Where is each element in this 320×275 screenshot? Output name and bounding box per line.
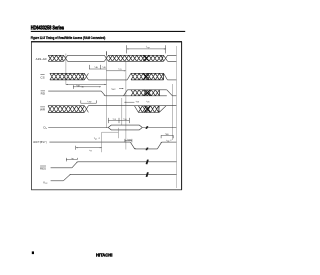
bold break X in RD hatch	[144, 90, 150, 96]
bold break X in CS hatch	[143, 73, 149, 80]
node V5 end-of-cycle reference line	[175, 46, 177, 188]
page number block	[32, 251, 34, 254]
RD falling edge	[101, 91, 105, 96]
WR band bottom	[138, 111, 159, 113]
svg-text:RC: RC	[72, 158, 74, 160]
svg-text:DH: DH	[124, 119, 126, 121]
WAIT rising edge	[157, 142, 161, 149]
svg-text:CS: CS	[40, 75, 44, 79]
dimension tRES	[65, 158, 67, 162]
svg-text:WS: WS	[128, 140, 131, 142]
RD close transition	[167, 90, 173, 96]
RD hatch	[131, 90, 159, 96]
diagram frame	[32, 42, 182, 190]
break mark	[146, 172, 148, 177]
Vcc rising ramp	[63, 174, 70, 181]
svg-text:RES: RES	[40, 166, 46, 170]
RD valid band	[124, 90, 167, 96]
dimension tWW	[80, 100, 82, 103]
dimension tWH bracket	[160, 135, 162, 138]
CS hatch 1	[50, 73, 85, 80]
RD low segment	[105, 95, 123, 97]
WR hatch 1	[48, 106, 84, 113]
WR hatch 2	[138, 106, 159, 113]
bold break X in WR hatch	[144, 106, 150, 113]
dimension tAD	[66, 83, 106, 85]
node V2 reference line	[105, 52, 107, 128]
data line left	[48, 127, 108, 129]
svg-text:A19–A0: A19–A0	[36, 57, 47, 61]
address bus transition	[104, 55, 108, 61]
WAIT falling edge	[130, 142, 134, 149]
node V3b reference line	[121, 98, 123, 125]
CS low tail	[167, 79, 176, 81]
CS falling edge	[164, 73, 168, 80]
dimension tAH tAS cells	[88, 65, 90, 69]
CS transition to low	[84, 73, 88, 80]
svg-text:cyc: cyc	[147, 47, 150, 49]
data valid hexagon	[108, 125, 142, 130]
svg-text:DS: DS	[147, 102, 149, 104]
node V3a reference line	[125, 62, 127, 150]
svg-text:HITACHI: HITACHI	[96, 252, 113, 258]
node V1 reference line	[65, 54, 67, 85]
address bus transition	[64, 55, 68, 61]
RES low segment	[51, 167, 72, 169]
WR open falling branch	[134, 106, 138, 113]
svg-text:DS: DS	[114, 119, 116, 121]
break mark	[146, 126, 148, 129]
dimension tDW arrow	[124, 101, 134, 103]
dimension tWS	[124, 139, 126, 143]
CS low segment	[88, 79, 127, 81]
dimension tCSD arrow	[106, 70, 125, 72]
dimension tDSU tDH	[107, 118, 109, 123]
WAIT low segment	[135, 148, 158, 150]
WR high segment	[88, 105, 176, 107]
address bus hatch 2	[108, 55, 163, 61]
address bus hatch 1	[48, 55, 63, 61]
svg-text:Figure 12-5 Timing of Read/Wr: Figure 12-5 Timing of Read/Write Access …	[31, 36, 106, 40]
header rule	[31, 30, 185, 32]
CS rising edge	[127, 73, 131, 80]
break mark	[146, 160, 148, 165]
address bus transition	[164, 55, 168, 61]
node V4 reference line	[171, 84, 173, 140]
data line right	[142, 127, 176, 129]
break mark	[146, 148, 148, 151]
svg-text:WR: WR	[40, 108, 46, 112]
WAIT high tail	[162, 141, 177, 143]
dimension W callout	[101, 132, 103, 152]
svg-text:WAIT(BSY): WAIT(BSY)	[33, 141, 47, 144]
svg-text:CS: CS	[119, 69, 121, 71]
address bus tail	[168, 55, 177, 61]
bold break X in address hatch	[143, 55, 149, 61]
Vcc high segment	[70, 173, 176, 175]
WAIT high segment	[49, 141, 130, 143]
address bus valid segment	[68, 55, 105, 61]
RES rising edge	[72, 162, 78, 168]
WR transition to high	[84, 106, 88, 113]
RD bus open transition	[124, 90, 128, 96]
RES high segment	[77, 161, 176, 163]
dimension tcyc	[126, 45, 128, 53]
dimension tWR	[72, 85, 74, 89]
RD high segment	[48, 90, 101, 92]
WR close rising edge	[159, 106, 166, 113]
svg-text:HD6433258 Series: HD6433258 Series	[31, 25, 64, 31]
CS hatch 2	[131, 73, 164, 80]
RD low tail	[172, 95, 176, 97]
svg-text:in: in	[46, 128, 47, 130]
Vcc low segment	[51, 180, 64, 182]
